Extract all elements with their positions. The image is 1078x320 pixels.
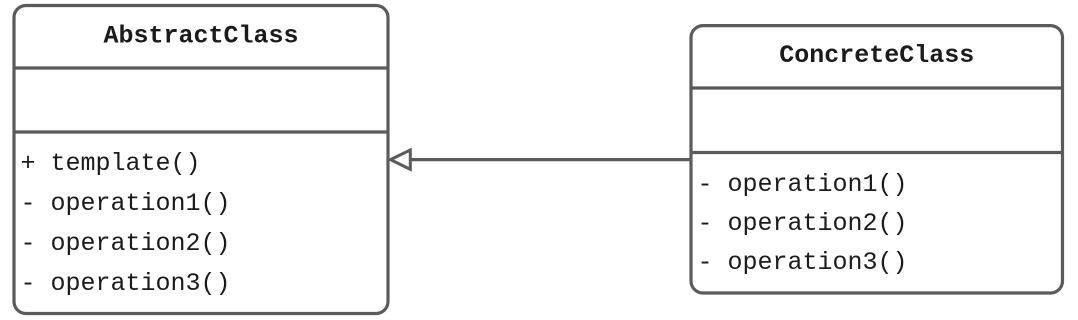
svg-text:+ template(): + template()	[21, 149, 201, 178]
svg-text:- operation2(): - operation2()	[698, 209, 908, 238]
svg-text:- operation1(): - operation1()	[21, 189, 231, 218]
class box ConcreteClass	[690, 26, 1065, 293]
divider attributes/methods ConcreteClass	[690, 151, 1065, 154]
generalization arrow ConcreteClass to AbstractClass	[391, 150, 690, 169]
svg-text:- operation1(): - operation1()	[698, 170, 908, 199]
svg-text:ConcreteClass: ConcreteClass	[779, 41, 974, 70]
divider title/attributes ConcreteClass	[690, 86, 1065, 89]
svg-text:- operation3(): - operation3()	[698, 248, 908, 277]
svg-text:- operation3(): - operation3()	[21, 269, 231, 298]
hollow triangle arrowhead	[391, 150, 411, 169]
class box AbstractClass	[13, 6, 390, 314]
svg-text:- operation2(): - operation2()	[21, 229, 231, 258]
divider attributes/methods AbstractClass	[13, 130, 390, 133]
arrow shaft	[410, 158, 690, 161]
divider title/attributes AbstractClass	[13, 66, 390, 69]
svg-text:AbstractClass: AbstractClass	[103, 22, 298, 51]
